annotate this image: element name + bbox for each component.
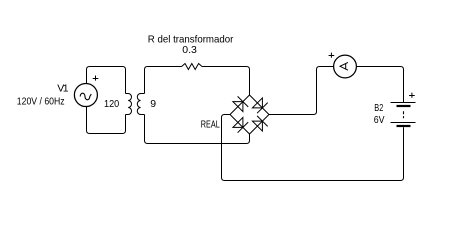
wire secondary top lead to resistor: [145, 67, 182, 94]
svg-text:B2: B2: [374, 102, 383, 114]
ammeter A glyph (A rotated pointing left): [340, 62, 348, 70]
svg-text:1: 1: [63, 83, 69, 95]
battery B2 plates: [391, 103, 416, 127]
battery long plate top: [391, 102, 416, 104]
svg-text:120V / 60Hz: 120V / 60Hz: [17, 96, 65, 108]
resistor R del transformador zigzag: [182, 64, 202, 70]
bridge rectifier diamond: [230, 95, 269, 134]
svg-text:6V: 6V: [374, 114, 385, 126]
diode D3 bottom-left (anode left vertex, cathode bottom vertex): [233, 117, 248, 132]
ammeter circle: [334, 55, 357, 78]
wire primary loop bottom: transformer primary lead to source bottom: [87, 106, 126, 133]
wire ammeter to battery top: [356, 67, 403, 103]
transformer secondary winding: [137, 94, 144, 115]
battery short thick plate top: [397, 105, 411, 107]
svg-text:120: 120: [104, 98, 119, 110]
wire bridge left vertex down, bottom rail, up to battery bottom: [222, 115, 404, 181]
wire secondary bottom lead to bridge bottom stub: [145, 115, 250, 144]
svg-text:9: 9: [150, 98, 156, 110]
plus sign of V1: [93, 76, 99, 81]
battery short thick plate bottom: [397, 125, 411, 127]
plus sign of battery: [409, 93, 415, 98]
voltage source V1 circle: [74, 84, 97, 107]
battery dashed cell line: [403, 111, 405, 118]
wire primary loop top: source top to transformer primary lead: [87, 67, 126, 94]
battery long plate bottom: [391, 122, 416, 124]
svg-text:0.3: 0.3: [182, 44, 197, 56]
sine wave inside V1: [80, 93, 91, 100]
plus sign of ammeter: [329, 53, 335, 58]
wire resistor to bridge top stub: [202, 67, 250, 96]
diode D1 top-left (anode left vertex, cathode top vertex): [233, 96, 248, 111]
diode D2 top-right (anode top vertex, cathode right vertex): [252, 98, 267, 113]
transformer primary winding: [126, 94, 132, 115]
wire bridge right vertex to ammeter: [269, 67, 334, 115]
diode D4 bottom-right (anode bottom vertex, cathode right vertex): [252, 116, 267, 131]
svg-text:REAL: REAL: [201, 119, 220, 131]
